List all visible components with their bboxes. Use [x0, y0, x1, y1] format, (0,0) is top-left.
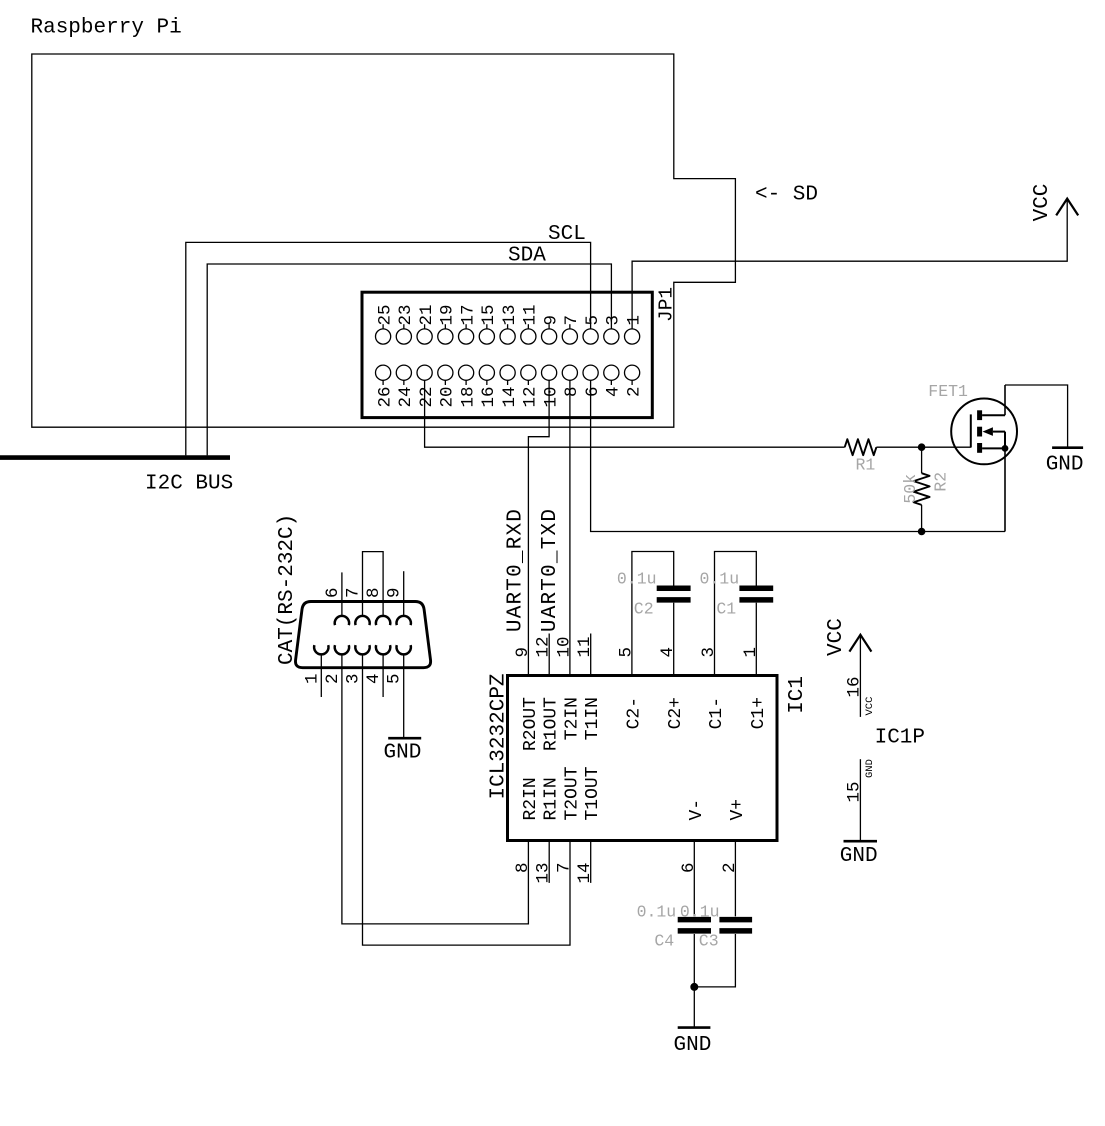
svg-text:0.1u: 0.1u [700, 570, 740, 589]
wire IC1 C2 loop (pins 5-4) [632, 552, 674, 676]
label <- SD [755, 184, 818, 207]
svg-text:VCC: VCC [864, 697, 876, 716]
svg-text:8: 8 [562, 387, 582, 398]
transistor FET1 (N-MOSFET) [951, 385, 1017, 464]
svg-text:7: 7 [562, 315, 582, 326]
label CAT(RS-232C) [276, 514, 299, 665]
label C1 value 0.1u [700, 570, 740, 589]
svg-text:15: 15 [844, 782, 864, 803]
label IC1 [786, 676, 809, 714]
svg-text:CAT(RS-232C): CAT(RS-232C) [276, 514, 299, 665]
svg-text:UART0_RXD: UART0_RXD [504, 508, 527, 632]
svg-text:1: 1 [302, 674, 322, 685]
wire IC1 pin 2 V+ to C3 [734, 841, 736, 917]
svg-text:6: 6 [323, 587, 343, 598]
wire UART0_TXD net (JP1 pin 8 to IC1 pin 10) [569, 380, 571, 675]
wire DB9 pin 4 stub [382, 655, 384, 697]
junction C3/C4 ground node [690, 983, 698, 991]
IC1 pin 7 T2OUT [555, 766, 583, 873]
svg-text:7: 7 [344, 587, 364, 598]
wire DB9 pin 5 to GND [403, 655, 405, 738]
DB9 pin 2 socket [323, 645, 349, 684]
capacitor C1 [739, 588, 773, 600]
svg-text:9: 9 [541, 315, 561, 326]
junction R2 bottom node [918, 528, 926, 536]
svg-text:C2-: C2- [624, 697, 644, 729]
power VCC (IC1P pin 16) [825, 618, 871, 717]
JP1 pin 8 [562, 365, 582, 397]
svg-text:JP1: JP1 [656, 287, 678, 322]
connector JP1 (Raspberry Pi GPIO header) [362, 292, 652, 417]
label R1 value [856, 456, 876, 475]
svg-text:C4: C4 [654, 931, 674, 950]
wire DB9 pin 3 to IC1 pin 7 [363, 655, 571, 945]
svg-text:13: 13 [500, 304, 520, 325]
svg-text:T2IN: T2IN [563, 697, 583, 740]
IC1 pin 1 C1+ [741, 647, 769, 729]
svg-text:V-: V- [687, 799, 707, 821]
label R2 name [932, 472, 951, 492]
label C1 name [716, 600, 736, 619]
svg-text:11: 11 [575, 636, 595, 657]
svg-text:12: 12 [521, 387, 541, 408]
svg-text:IC1P: IC1P [875, 727, 925, 750]
svg-text:R2IN: R2IN [521, 777, 541, 820]
IC1 pin 6 V- [679, 799, 707, 873]
svg-text:8: 8 [513, 863, 533, 874]
svg-text:26: 26 [375, 387, 395, 408]
svg-text:C1-: C1- [707, 697, 727, 729]
svg-text:R2OUT: R2OUT [521, 697, 541, 751]
svg-text:C3: C3 [699, 931, 719, 950]
ground GND (IC1P pin 15) [840, 841, 878, 868]
svg-text:3: 3 [699, 647, 719, 658]
svg-text:22: 22 [417, 387, 437, 408]
DB9 pin 1 socket [302, 645, 328, 684]
IC1 pin 9 R2OUT [513, 647, 541, 751]
svg-text:VCC: VCC [825, 618, 848, 656]
wire IC1 pin 6 V- to C4 [693, 841, 695, 917]
svg-text:25: 25 [375, 304, 395, 325]
JP1 pin 13 [500, 304, 520, 344]
DB9 pin 5 socket [385, 645, 411, 684]
IC1P pin 16 number [844, 676, 864, 697]
JP1 pin 23 [396, 304, 416, 344]
svg-text:GND: GND [384, 742, 422, 765]
svg-text:T2OUT: T2OUT [563, 766, 583, 820]
JP1 pin 24 [396, 365, 416, 407]
svg-text:20: 20 [438, 387, 458, 408]
svg-text:1: 1 [741, 647, 761, 658]
DB9 pin 9 socket [385, 587, 411, 625]
label UART0_RXD [504, 508, 527, 632]
svg-text:FET1: FET1 [928, 382, 968, 401]
svg-text:9: 9 [513, 647, 533, 658]
DB9 pin 6 socket [323, 587, 349, 625]
svg-text:C2: C2 [634, 600, 654, 619]
label C2 value 0.1u [617, 570, 657, 589]
IC1P pin 16 name VCC [864, 697, 876, 716]
wire DB9 pin 6 stub [341, 572, 343, 615]
capacitor C4 [678, 920, 711, 931]
label I2C BUS [145, 473, 233, 496]
svg-text:4: 4 [604, 387, 624, 398]
svg-text:15: 15 [479, 304, 499, 325]
label FET1 [928, 382, 968, 401]
JP1 pin 16 [479, 365, 499, 407]
svg-text:GND: GND [674, 1034, 712, 1057]
label SCL [548, 223, 586, 246]
svg-text:2: 2 [720, 863, 740, 874]
svg-text:16: 16 [479, 387, 499, 408]
label SDA [508, 245, 546, 268]
svg-text:7: 7 [555, 863, 575, 874]
svg-text:1: 1 [624, 315, 644, 326]
svg-text:6: 6 [679, 863, 699, 874]
IC1 pin 3 C1- [699, 647, 727, 729]
svg-text:11: 11 [521, 304, 541, 325]
JP1 pin 9 [541, 315, 561, 344]
JP1 pin 26 [375, 365, 395, 407]
svg-text:T1OUT: T1OUT [583, 766, 603, 820]
svg-text:0.1u: 0.1u [680, 903, 720, 922]
DB9 pin 3 socket [344, 645, 370, 684]
svg-text:12: 12 [534, 636, 554, 657]
svg-text:GND: GND [864, 759, 876, 778]
junction FET1 source node [1002, 445, 1009, 452]
svg-text:SCL: SCL [548, 223, 586, 246]
wire C3 to ground node [694, 934, 735, 987]
JP1 pin 3 [604, 315, 624, 344]
JP1 pin 11 [521, 304, 541, 344]
svg-text:R1: R1 [856, 456, 876, 475]
svg-text:0.1u: 0.1u [617, 570, 657, 589]
wire FET1 source to bottom net [1004, 448, 1006, 531]
JP1 pin 7 [562, 315, 582, 344]
svg-text:0.1u: 0.1u [637, 903, 677, 922]
wire JP1 pin 6 to FET1 source net [591, 380, 1005, 531]
svg-text:19: 19 [438, 304, 458, 325]
JP1 pin 22 [417, 365, 437, 407]
label R2 value 50k [901, 474, 920, 504]
wire C4 to ground node [693, 934, 695, 987]
svg-text:R1OUT: R1OUT [542, 697, 562, 751]
svg-text:10: 10 [555, 636, 575, 657]
IC1 pin 14 T1OUT [575, 766, 603, 883]
svg-text:5: 5 [385, 674, 405, 685]
JP1 pin 12 [521, 365, 541, 407]
JP1 pin 18 [458, 365, 478, 407]
JP1 pin 20 [438, 365, 458, 407]
IC1 pin 4 C2+ [658, 647, 686, 729]
svg-text:V+: V+ [728, 799, 748, 821]
JP1 pin 10 [541, 365, 561, 407]
svg-text:8: 8 [364, 587, 384, 598]
wire JP1 pin 22 to R1 (gate net) [425, 380, 845, 447]
ground GND (DB9 pin 5) [384, 738, 422, 764]
wire DB9 pin 2 to IC1 pin 8 [342, 655, 529, 924]
JP1 pin 6 [583, 365, 603, 397]
svg-text:C2+: C2+ [666, 697, 686, 729]
JP1 pin 17 [458, 304, 478, 344]
JP1 pin 21 [417, 304, 437, 344]
IC1 pin 5 C2- [616, 647, 644, 729]
DB9 pin 8 socket [364, 587, 390, 625]
wire R1 to gate [876, 446, 971, 448]
svg-text:UART0_TXD: UART0_TXD [539, 508, 562, 632]
IC1P pin 15 name GND [864, 759, 876, 778]
svg-text:VCC: VCC [1031, 184, 1054, 222]
JP1 pin 25 [375, 304, 395, 344]
svg-text:13: 13 [534, 863, 554, 884]
svg-text:Raspberry Pi: Raspberry Pi [31, 17, 182, 40]
ground GND (C3/C4) [674, 1028, 712, 1057]
label C3 value 0.1u [680, 903, 720, 922]
svg-text:5: 5 [583, 315, 603, 326]
IC1 pin 11 T1IN [575, 634, 603, 741]
svg-text:10: 10 [541, 387, 561, 408]
svg-text:GND: GND [1046, 454, 1084, 477]
IC1 pin 2 V+ [720, 799, 748, 873]
svg-text:6: 6 [583, 387, 603, 398]
svg-text:IC1: IC1 [786, 676, 809, 714]
JP1 pin 2 [624, 365, 644, 397]
label C3 name [699, 931, 719, 950]
svg-text:T1IN: T1IN [583, 697, 603, 740]
svg-text:23: 23 [396, 304, 416, 325]
IC1P pin 15 number [844, 782, 864, 803]
JP1 pin 4 [604, 365, 624, 397]
IC1 pin 10 T2IN [555, 636, 583, 740]
svg-text:3: 3 [604, 315, 624, 326]
label UART0_TXD [539, 508, 562, 632]
svg-text:4: 4 [658, 647, 678, 658]
svg-text:16: 16 [844, 676, 864, 697]
svg-text:14: 14 [500, 387, 520, 408]
power VCC (top right) [1031, 184, 1078, 222]
svg-text:17: 17 [458, 304, 478, 325]
svg-text:24: 24 [396, 387, 416, 408]
svg-text:9: 9 [385, 587, 405, 598]
JP1 pin 1 [624, 315, 644, 344]
junction R1/R2/gate node [918, 443, 926, 451]
IC1 pin 8 R2IN [513, 777, 541, 873]
JP1 pin 5 [583, 315, 603, 344]
label IC1P [875, 727, 925, 750]
svg-text:C1: C1 [716, 600, 736, 619]
svg-text:GND: GND [840, 845, 878, 868]
svg-text:5: 5 [616, 647, 636, 658]
ground GND (FET1 drain) [1046, 448, 1084, 477]
wire ground node down [693, 987, 695, 1028]
resistor R1 [845, 439, 877, 455]
svg-text:R2: R2 [932, 472, 951, 492]
IC1P pin 15 wire [859, 759, 861, 841]
JP1 pin 15 [479, 304, 499, 344]
label C2 name [634, 600, 654, 619]
wire UART0_RXD net (JP1 pin 10 to IC1 pin 9) [528, 380, 549, 675]
resistor R2 [914, 447, 930, 531]
JP1 pin 19 [438, 304, 458, 344]
svg-text:SDA: SDA [508, 245, 546, 268]
label ICL3232CPZ [488, 673, 511, 799]
svg-text:I2C BUS: I2C BUS [145, 473, 233, 496]
IC1 pin 13 R1IN [534, 777, 562, 883]
label C4 name [654, 931, 674, 950]
label JP1 [656, 287, 678, 322]
svg-text:R1IN: R1IN [542, 777, 562, 820]
svg-text:4: 4 [364, 674, 384, 685]
DB9 pin 7 socket [344, 587, 370, 625]
IC1 pin 12 R1OUT [534, 634, 562, 752]
svg-text:3: 3 [344, 674, 364, 685]
frame Raspberry Pi board outline [32, 54, 736, 427]
svg-text:2: 2 [323, 674, 343, 685]
label Raspberry Pi [31, 17, 182, 40]
svg-text:18: 18 [458, 387, 478, 408]
svg-text:<- SD: <- SD [755, 184, 818, 207]
capacitor C2 [657, 588, 691, 600]
svg-text:ICL3232CPZ: ICL3232CPZ [488, 673, 511, 799]
connector X1 DB9 CAT(RS-232C) outline [295, 602, 430, 668]
wire DB9 pin 1 stub [320, 655, 322, 697]
wire IC1 C1 loop (pins 3-1) [715, 552, 757, 676]
DB9 pin 4 socket [364, 645, 390, 684]
wire SCL net [186, 242, 591, 455]
svg-text:50k: 50k [901, 474, 920, 504]
svg-text:2: 2 [624, 387, 644, 398]
label C4 value 0.1u [637, 903, 677, 922]
wire SDA net [207, 264, 611, 455]
svg-text:21: 21 [417, 304, 437, 325]
capacitor C3 [719, 920, 752, 931]
wire DB9 pin 9 stub [403, 571, 405, 615]
svg-text:14: 14 [575, 863, 595, 884]
wire VCC net from JP1 pin 1 [632, 199, 1067, 329]
wire FET1 drain to GND [1005, 385, 1068, 448]
svg-text:C1+: C1+ [749, 697, 769, 729]
bus I2C BUS [0, 455, 230, 460]
JP1 pin 14 [500, 365, 520, 407]
op-amp/IC U: IC1 ICL3232CPZ body [508, 676, 778, 841]
wire DB9 pins 7-8 bridge [363, 552, 384, 616]
